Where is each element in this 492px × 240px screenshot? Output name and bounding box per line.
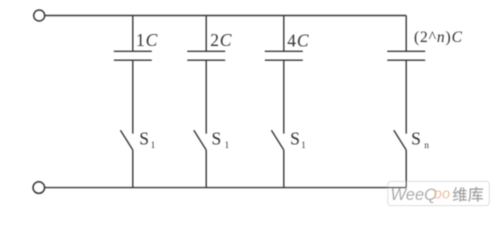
svg-text:2C: 2C: [210, 30, 232, 50]
svg-text:oo: oo: [434, 187, 451, 203]
svg-text:S1: S1: [290, 129, 306, 151]
svg-text:4C: 4C: [287, 30, 309, 50]
svg-text:(2^n)C: (2^n)C: [414, 29, 463, 46]
svg-text:S1: S1: [212, 129, 230, 151]
svg-text:WeeQ: WeeQ: [391, 186, 438, 204]
svg-text:Sn: Sn: [411, 129, 429, 151]
svg-text:S1: S1: [139, 129, 155, 151]
svg-text:1C: 1C: [136, 30, 158, 50]
